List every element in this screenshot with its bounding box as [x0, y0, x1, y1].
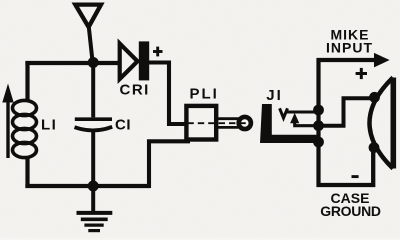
wire NC contact to node — [295, 122, 319, 126]
svg-text:PLI: PLI — [190, 86, 219, 103]
diode CR1 — [120, 41, 150, 80]
wire bottom horizontal — [25, 184, 150, 188]
label MIKE INPUT — [326, 26, 373, 55]
minus polarity case — [352, 175, 359, 178]
wire tip contact to node — [287, 110, 319, 113]
arrowhead mike input — [374, 53, 390, 68]
jack J1 normally-closed contact arrow — [290, 113, 299, 123]
wire node to element top — [319, 98, 374, 125]
node jack NC / element — [313, 120, 324, 131]
wire top horizontal — [25, 61, 119, 65]
capacitor C1 — [75, 60, 113, 188]
wire mike input lead — [317, 58, 379, 62]
wire right bus vertical — [316, 58, 320, 187]
node element bottom terminal — [369, 142, 380, 153]
node jack sleeve — [313, 137, 324, 148]
wire PL1 bottom return — [149, 141, 190, 188]
label CASE GROUND — [320, 190, 381, 219]
mike element body — [370, 78, 394, 169]
wire left vertical bottom — [25, 156, 29, 188]
dashed axis line through PL1 — [177, 122, 247, 124]
jack J1 tip contact V — [280, 108, 288, 118]
svg-text:LI: LI — [41, 117, 57, 134]
plug PL1 tip circle — [239, 117, 251, 129]
svg-text:CRI: CRI — [120, 82, 150, 99]
wire left vertical top — [25, 61, 29, 102]
arrow signal up beside L1 — [2, 84, 13, 159]
svg-text:GROUND: GROUND — [320, 203, 381, 219]
inductor L1 — [13, 100, 37, 157]
plus polarity mike input — [356, 68, 367, 79]
wire diode to PL1 — [149, 63, 187, 125]
node jack tip — [313, 105, 324, 116]
wire case ground return — [317, 147, 374, 185]
node element top terminal — [369, 92, 380, 103]
ground — [77, 186, 113, 231]
node junction ground — [88, 181, 99, 192]
node junction antenna/C1 — [88, 57, 99, 68]
jack J1 sleeve frame — [260, 104, 317, 143]
svg-text:INPUT: INPUT — [326, 39, 373, 55]
plus polarity at CR1 — [153, 47, 163, 57]
svg-text:CI: CI — [115, 116, 131, 133]
antenna — [75, 5, 101, 61]
svg-text:JI: JI — [266, 87, 283, 104]
plug PL1 shaft — [217, 119, 239, 128]
plug PL1 body — [186, 106, 216, 140]
